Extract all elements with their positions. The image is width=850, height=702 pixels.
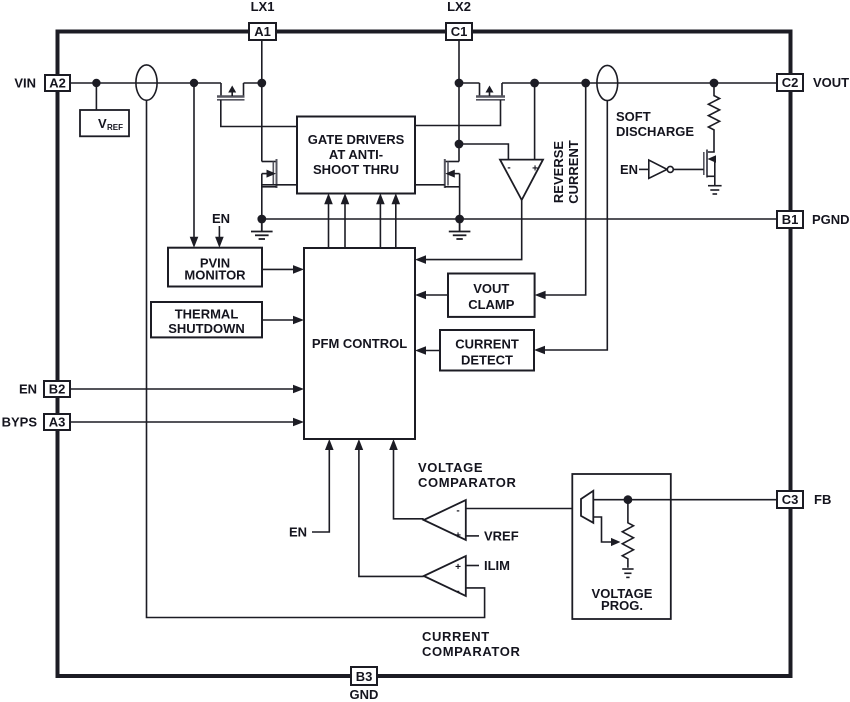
node PGND2: [455, 215, 464, 224]
svg-text:REVERSE: REVERSE: [551, 141, 566, 203]
svg-text:PROG.: PROG.: [601, 598, 643, 613]
node VOUT comp tap: [530, 79, 539, 88]
svg-text:REF: REF: [107, 123, 123, 132]
wire VOUT to vout clamp: [540, 83, 586, 295]
block VREF: [80, 110, 129, 136]
wire EN to inverter: [639, 168, 649, 170]
svg-text:FB: FB: [814, 492, 831, 507]
block gate drivers U1: [297, 117, 415, 194]
svg-text:-: -: [456, 506, 459, 517]
arrow into current detect: [534, 346, 545, 355]
svg-text:VOUT: VOUT: [813, 75, 849, 90]
wire VREF stub: [466, 535, 479, 537]
svg-text:CURRENT: CURRENT: [455, 337, 519, 352]
svg-text:MONITOR: MONITOR: [184, 268, 246, 283]
op-amp U4 current comparator: [424, 556, 466, 597]
block current detect: [440, 330, 534, 371]
wire LX2 to Q3: [459, 82, 777, 84]
svg-text:CLAMP: CLAMP: [468, 297, 515, 312]
svg-text:A1: A1: [254, 24, 271, 39]
ground symbol soft discharge: [708, 186, 722, 194]
svg-text:V: V: [98, 116, 107, 131]
wire Q2 gate to drivers: [263, 184, 298, 186]
wire current sense loop: [147, 100, 485, 617]
wire EN to PFM bottom: [312, 442, 329, 532]
svg-text:CURRENT: CURRENT: [566, 140, 581, 204]
pin A3 BYPS: [2, 414, 70, 430]
svg-text:C3: C3: [782, 492, 799, 507]
resistor R1 feedback: [622, 500, 633, 568]
transistor Q1 PMOS high-side 1: [217, 83, 245, 100]
wire VREF drop: [95, 83, 97, 110]
wire comparator minus to voltage prog: [466, 508, 581, 510]
svg-text:VIN: VIN: [14, 76, 36, 91]
wire PFM to drivers 1: [328, 196, 330, 248]
node soft discharge tap: [710, 79, 719, 88]
svg-text:DETECT: DETECT: [461, 353, 513, 368]
svg-text:COMPARATOR: COMPARATOR: [422, 644, 520, 659]
svg-text:COMPARATOR: COMPARATOR: [418, 475, 516, 490]
inverter soft discharge: [649, 160, 674, 178]
node PGND1: [257, 215, 266, 224]
svg-text:SHUTDOWN: SHUTDOWN: [168, 321, 245, 336]
wire comparator output to PFM: [418, 200, 522, 260]
svg-text:A2: A2: [49, 76, 66, 91]
block thermal shutdown: [151, 302, 262, 337]
wire PGND rail: [262, 218, 777, 220]
node LX1: [257, 79, 266, 88]
wire mux wiper arrow: [593, 517, 615, 542]
svg-text:PFM CONTROL: PFM CONTROL: [312, 336, 407, 351]
mux voltage select: [581, 491, 593, 523]
block PFM control: [304, 248, 415, 439]
transistor Q4 NMOS low-side 2: [445, 159, 460, 188]
pin A2 VIN: [14, 75, 70, 91]
svg-text:EN: EN: [289, 525, 307, 540]
node VIN-sense junction: [190, 79, 198, 87]
wire voltage comparator to PFM: [394, 442, 424, 519]
wire Q3 gate to drivers: [415, 100, 501, 126]
wire LX2 vertical: [458, 40, 460, 162]
svg-text:SOFT: SOFT: [616, 109, 651, 124]
svg-text:-: -: [507, 163, 510, 174]
transistor Q3 PMOS high-side 2: [476, 83, 505, 100]
wire FB line: [593, 499, 777, 501]
wire thermal shutdown to PFM: [262, 319, 301, 321]
svg-text:A3: A3: [49, 415, 66, 430]
pin B1 PGND: [777, 211, 850, 228]
svg-text:ILIM: ILIM: [484, 558, 510, 573]
wire VOUT to comparator plus: [534, 83, 536, 160]
svg-text:C2: C2: [782, 75, 799, 90]
svg-text:+: +: [455, 562, 461, 573]
svg-text:LX2: LX2: [447, 0, 471, 14]
svg-text:VOUT: VOUT: [473, 281, 509, 296]
node VOUT clamp tap: [581, 79, 590, 88]
block VOUT clamp: [448, 274, 535, 317]
wire sense to current detect: [540, 101, 607, 350]
ground symbol 1: [251, 219, 273, 239]
wire ILIM stub: [466, 565, 479, 567]
arrow comparator to PFM: [415, 255, 426, 264]
svg-text:+: +: [532, 164, 538, 175]
op-amp U2 reverse current comparator: [500, 160, 543, 200]
svg-text:EN: EN: [212, 211, 230, 226]
pin C2 VOUT: [777, 74, 849, 91]
svg-text:-: -: [456, 586, 459, 597]
wire PFM to drivers 3: [379, 196, 381, 248]
node FB: [624, 495, 633, 504]
ground symbol FB: [622, 569, 633, 577]
transistor Q2 NMOS low-side 1: [262, 159, 277, 188]
wire Q1 gate to drivers: [221, 100, 297, 127]
transistor Q5 soft discharge NMOS: [704, 136, 716, 185]
node LX2 comparator tap: [455, 140, 464, 149]
wire VIN sense to PVIN monitor: [193, 83, 195, 244]
wire PFM to drivers 4: [395, 196, 397, 248]
arrow into vout clamp: [535, 291, 546, 300]
svg-text:EN: EN: [620, 162, 638, 177]
svg-text:AT ANTI-: AT ANTI-: [329, 147, 383, 162]
svg-text:DISCHARGE: DISCHARGE: [616, 124, 694, 139]
wire PVIN monitor to PFM: [262, 268, 301, 270]
pin C3 FB: [777, 491, 831, 508]
resistor R2 soft discharge: [708, 83, 719, 136]
wire LX1 vertical: [261, 40, 263, 162]
label reverse current: [551, 140, 581, 204]
label voltage comparator: [418, 460, 516, 490]
capacitor sense ellipse VIN: [136, 65, 157, 100]
wire Q2 source to pgnd: [261, 174, 263, 219]
chip outline border: [58, 32, 791, 677]
node LX2 top: [455, 79, 464, 88]
wire vout clamp to PFM: [418, 294, 448, 296]
svg-text:B3: B3: [356, 669, 373, 684]
ground symbol 2: [449, 219, 471, 239]
svg-text:B2: B2: [49, 382, 66, 397]
svg-text:VREF: VREF: [484, 529, 519, 544]
wire Q4 source to pgnd: [459, 174, 461, 219]
label soft discharge: [616, 109, 694, 139]
capacitor sense ellipse VOUT: [597, 65, 618, 100]
op-amp U3 voltage comparator: [424, 500, 466, 542]
svg-text:GND: GND: [350, 687, 379, 702]
wire BYPS pin to PFM: [70, 421, 301, 423]
svg-text:BYPS: BYPS: [2, 415, 38, 430]
svg-text:B1: B1: [782, 212, 799, 227]
svg-text:GATE DRIVERS: GATE DRIVERS: [308, 132, 405, 147]
wire EN pin to PFM: [70, 388, 301, 390]
wire PFM to drivers 2: [344, 196, 346, 248]
pin B3 GND: [350, 667, 379, 702]
arrow vout clamp to PFM: [415, 291, 426, 300]
wire EN to PVIN monitor: [218, 226, 220, 244]
svg-text:CURRENT: CURRENT: [422, 629, 490, 644]
wire LX2 to comparator minus: [459, 144, 508, 160]
svg-text:PGND: PGND: [812, 212, 850, 227]
block voltage prog: [572, 474, 671, 619]
pin C1 LX2: [446, 0, 472, 40]
label current comparator: [422, 629, 520, 659]
pin B2 EN: [19, 381, 70, 397]
node VIN-VREF junction: [92, 79, 100, 87]
pin A1 LX1: [249, 0, 276, 40]
wire VIN rail: [70, 82, 259, 84]
svg-text:VOLTAGE: VOLTAGE: [418, 460, 483, 475]
svg-text:SHOOT THRU: SHOOT THRU: [313, 162, 399, 177]
block PVIN monitor: [168, 248, 262, 287]
wire Q4 gate to drivers: [415, 184, 445, 186]
svg-text:LX1: LX1: [251, 0, 275, 14]
svg-text:C1: C1: [451, 24, 468, 39]
svg-text:THERMAL: THERMAL: [175, 307, 239, 322]
wire current comparator to PFM: [359, 442, 424, 576]
svg-text:+: +: [455, 531, 461, 542]
svg-text:EN: EN: [19, 382, 37, 397]
wire current detect to PFM: [418, 350, 440, 352]
wire inverter to Q5 gate: [673, 168, 704, 170]
arrow current detect to PFM: [415, 346, 426, 355]
